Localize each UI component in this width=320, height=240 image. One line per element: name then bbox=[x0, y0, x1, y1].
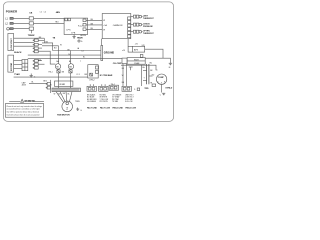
svg-text:TVAR: TVAR bbox=[14, 73, 20, 76]
svg-text:TM-1: TM-1 bbox=[48, 71, 52, 73]
svg-text:THERMOST: THERMOST bbox=[143, 33, 154, 35]
svg-text:FAN MOTOR: FAN MOTOR bbox=[57, 113, 70, 116]
svg-text:FIELD LINE: FIELD LINE bbox=[113, 108, 124, 110]
pressure switch box LPS bbox=[64, 18, 88, 34]
svg-text:PR PURPL: PR PURPL bbox=[100, 101, 109, 103]
fan wire BU bbox=[58, 92, 65, 102]
plug pin TM1 bbox=[57, 70, 60, 73]
svg-text:CRAN: CRAN bbox=[134, 62, 140, 65]
APS feed wire bbox=[127, 39, 129, 47]
wire net vertical x44.3 bbox=[43, 38, 45, 43]
blower plug pin a bbox=[46, 82, 51, 85]
wires from box2 bbox=[14, 61, 22, 69]
svg-text:PROBLEM: PROBLEM bbox=[143, 26, 153, 28]
ground symbol C left bbox=[30, 74, 36, 79]
warning note box bbox=[5, 104, 43, 118]
svg-text:BL: BL bbox=[83, 57, 85, 59]
wire drop x141.7 bbox=[141, 65, 143, 86]
wire K2-1 out bbox=[38, 60, 42, 62]
legend header plug 1 bbox=[87, 86, 96, 91]
breaker pole ground bbox=[29, 27, 33, 30]
svg-text:MOTOR: MOTOR bbox=[11, 62, 13, 71]
svg-text:LOW VOLT: LOW VOLT bbox=[11, 38, 13, 50]
legend column 2 bbox=[100, 94, 109, 103]
wire cell2 out bbox=[38, 43, 42, 45]
HIGH CRAN switch box bbox=[127, 58, 145, 65]
long wire net y58.3 bbox=[28, 57, 122, 59]
indicator lamp DS1 bbox=[55, 64, 60, 69]
connector block J2 bbox=[22, 60, 28, 71]
long wire net y77.1 bbox=[14, 76, 88, 78]
wire cell3 out bbox=[38, 47, 42, 49]
svg-text:CHECK: CHECK bbox=[143, 23, 150, 25]
svg-text:TRD: TRD bbox=[144, 88, 149, 90]
wires from box1 bbox=[14, 38, 45, 46]
wire APS right bbox=[145, 49, 163, 58]
terminal L2 bbox=[5, 22, 13, 25]
ground symbol M bbox=[169, 63, 172, 69]
svg-text:CB: CB bbox=[29, 13, 33, 15]
junction box 1 (rotated label) bbox=[8, 34, 14, 51]
relay contact cell K1-1 bbox=[33, 39, 38, 42]
label CHECK PROBLEM bbox=[143, 23, 153, 28]
svg-text:LT-1: LT-1 bbox=[77, 74, 80, 76]
svg-text:W: W bbox=[103, 20, 105, 22]
wire L2 to breaker bbox=[13, 22, 29, 24]
svg-text:GROUND: GROUND bbox=[104, 52, 115, 54]
legend column 4 bbox=[125, 94, 134, 103]
legend header plug 3 bbox=[109, 85, 118, 90]
svg-text:W: W bbox=[60, 44, 62, 46]
label OPTRN THERMOST bbox=[143, 31, 154, 36]
control board U1 bbox=[102, 14, 131, 39]
LPS top pins bbox=[65, 18, 71, 21]
svg-text:WARNING: WARNING bbox=[24, 100, 35, 103]
relay contact cell K1-2 bbox=[33, 43, 38, 46]
svg-text:S: S bbox=[161, 83, 162, 85]
border frame bbox=[3, 2, 173, 122]
svg-text:FIELD LOW: FIELD LOW bbox=[126, 108, 137, 110]
ground under LPS bbox=[72, 35, 75, 39]
svg-text:TRNSF: TRNSF bbox=[28, 35, 36, 37]
wire K2-2 out bbox=[38, 63, 44, 65]
svg-text:BL: BL bbox=[68, 93, 70, 95]
wire plug1 down bbox=[57, 73, 59, 88]
indicator lamp DS2 bbox=[68, 64, 73, 69]
svg-text:W: W bbox=[103, 30, 105, 32]
wire ground to breaker bbox=[13, 28, 29, 30]
plug pin TM2 bbox=[69, 70, 72, 73]
breaker pole L1 bbox=[29, 17, 33, 20]
small box right bbox=[152, 84, 156, 87]
svg-text:BL: BL bbox=[69, 61, 71, 63]
wire L1 to breaker bbox=[13, 17, 29, 19]
ground terminal bbox=[7, 28, 14, 31]
fan wire BL bbox=[68, 92, 72, 102]
svg-text:FACT LOW: FACT LOW bbox=[100, 107, 110, 110]
contactor bus b bbox=[125, 64, 127, 87]
wire cell1 out bbox=[38, 39, 44, 41]
fan motor M1 bbox=[62, 101, 73, 112]
terminal L1 bbox=[5, 17, 13, 20]
legend header plug 2 bbox=[99, 86, 108, 91]
run capacitor C2 plates bbox=[147, 64, 149, 84]
long wire net y55.1 bbox=[28, 54, 101, 56]
board bottom drop wire bbox=[101, 39, 103, 46]
node G circle bbox=[78, 40, 83, 43]
compressor motor bbox=[156, 74, 166, 84]
warning rule right bbox=[35, 100, 45, 102]
svg-text:FACT LINE: FACT LINE bbox=[87, 107, 98, 110]
svg-text:L1: L1 bbox=[40, 11, 42, 13]
svg-text:LIMIT: LIMIT bbox=[143, 15, 149, 17]
svg-text:GN GREEN: GN GREEN bbox=[87, 101, 97, 103]
igniter bar J5 bbox=[101, 46, 103, 61]
long wire y65.2 bbox=[121, 65, 158, 70]
HIGH CRAN left pin box bbox=[122, 58, 127, 64]
capacitor stub right bbox=[149, 75, 153, 77]
board right pin strip bbox=[128, 17, 131, 38]
svg-text:LPB-2: LPB-2 bbox=[89, 80, 94, 82]
svg-text:OPTRN: OPTRN bbox=[143, 31, 150, 33]
LPS right pins bbox=[83, 19, 86, 31]
thermostat connector row 2 bbox=[131, 23, 143, 26]
wire LPS-board 1 bbox=[86, 19, 102, 21]
svg-text:CANNON: CANNON bbox=[113, 24, 123, 27]
thermostat connector row 1 bbox=[131, 15, 143, 18]
wire LPS-board 2 bbox=[86, 24, 102, 26]
legend column 3 bbox=[112, 94, 122, 103]
capacitor stub top bbox=[143, 69, 147, 71]
svg-text:BLACK: BLACK bbox=[14, 51, 22, 54]
relay contact cell K2-2 bbox=[33, 63, 38, 66]
ground under compressor bbox=[160, 93, 166, 96]
junction box 2 (rotated label) bbox=[8, 55, 14, 72]
wire lamp1 to plug bbox=[57, 68, 59, 71]
svg-text:L2: L2 bbox=[44, 11, 46, 13]
svg-text:THERMOST: THERMOST bbox=[143, 18, 154, 20]
svg-text:L4: L4 bbox=[82, 51, 84, 53]
wire LPS-board 3 bbox=[86, 29, 102, 31]
svg-text:2: 2 bbox=[66, 106, 68, 110]
legend column 1 bbox=[87, 93, 97, 103]
air pressure switch APS box bbox=[128, 46, 145, 52]
wire cap to plugs bbox=[29, 83, 47, 85]
terminal strip TB1 bbox=[52, 88, 81, 92]
thermostat connector row 3 bbox=[131, 30, 143, 33]
legend header plug 4 bbox=[122, 86, 131, 91]
breaker pole L2 bbox=[29, 22, 33, 25]
tee component bbox=[129, 67, 133, 70]
relay contact cell K1-3 bbox=[33, 47, 38, 50]
wire L1 to LPS bbox=[34, 17, 65, 19]
svg-text:L: L bbox=[80, 60, 81, 62]
svg-text:HIGH: HIGH bbox=[134, 60, 139, 62]
svg-text:FLD LOW: FLD LOW bbox=[125, 101, 133, 103]
svg-text:4BN: 4BN bbox=[56, 11, 61, 14]
svg-text:POWER: POWER bbox=[6, 10, 18, 14]
blower plug pin b bbox=[46, 86, 51, 89]
bracket connector small bbox=[140, 55, 143, 58]
svg-text:HMDR: HMDR bbox=[77, 38, 83, 40]
fan wire BK bbox=[63, 92, 67, 102]
wire lamp2 to plug bbox=[70, 68, 72, 71]
svg-text:XFMR: XFMR bbox=[59, 84, 65, 86]
relay contact cell K1-4 bbox=[33, 50, 38, 53]
svg-text:TWIN: TWIN bbox=[75, 101, 80, 103]
connector D bbox=[134, 88, 140, 91]
ground G fan bbox=[76, 108, 82, 112]
wire net route b bbox=[42, 46, 58, 64]
ground drop wire bbox=[30, 30, 32, 33]
wire plug2 down bbox=[70, 73, 72, 88]
contactor bus a bbox=[122, 64, 124, 87]
label LIMIT THERMOST bbox=[143, 15, 154, 20]
svg-text:TN TAN: TN TAN bbox=[112, 100, 119, 103]
compressor ground wire bbox=[161, 84, 163, 92]
connector box LPB-2 bbox=[88, 65, 99, 78]
warning rule left bbox=[9, 100, 20, 102]
relay contact cell K2-3 bbox=[33, 67, 38, 70]
relay contact cell K2-1 bbox=[33, 60, 38, 63]
svg-text:1PB: 1PB bbox=[71, 33, 76, 35]
wire cell4 to lamp1 bbox=[38, 51, 55, 64]
svg-text:COMP: COMP bbox=[158, 77, 165, 79]
warning triangle bbox=[21, 99, 24, 102]
svg-text:BL: BL bbox=[32, 82, 34, 84]
fan wire W bbox=[54, 92, 64, 103]
wire to ground M bbox=[145, 58, 170, 63]
svg-text:CH-CMP: CH-CMP bbox=[113, 63, 122, 65]
svg-text:400V: 400V bbox=[22, 85, 27, 87]
wire L2 to LPS bbox=[34, 22, 65, 24]
capacitor stub low bbox=[143, 80, 147, 82]
legend header stems bbox=[90, 84, 105, 86]
svg-text:K1 TIM BAR: K1 TIM BAR bbox=[100, 74, 113, 77]
blower plug bar bbox=[49, 80, 51, 93]
svg-text:OVRLD: OVRLD bbox=[165, 88, 173, 90]
svg-text:BK1: BK1 bbox=[43, 80, 47, 82]
wire net route a bbox=[42, 43, 101, 51]
svg-text:APS: APS bbox=[134, 48, 139, 51]
svg-text:LPS: LPS bbox=[66, 30, 71, 32]
svg-text:K1-2: K1-2 bbox=[78, 25, 83, 27]
transformer XFMR box bbox=[55, 81, 73, 86]
